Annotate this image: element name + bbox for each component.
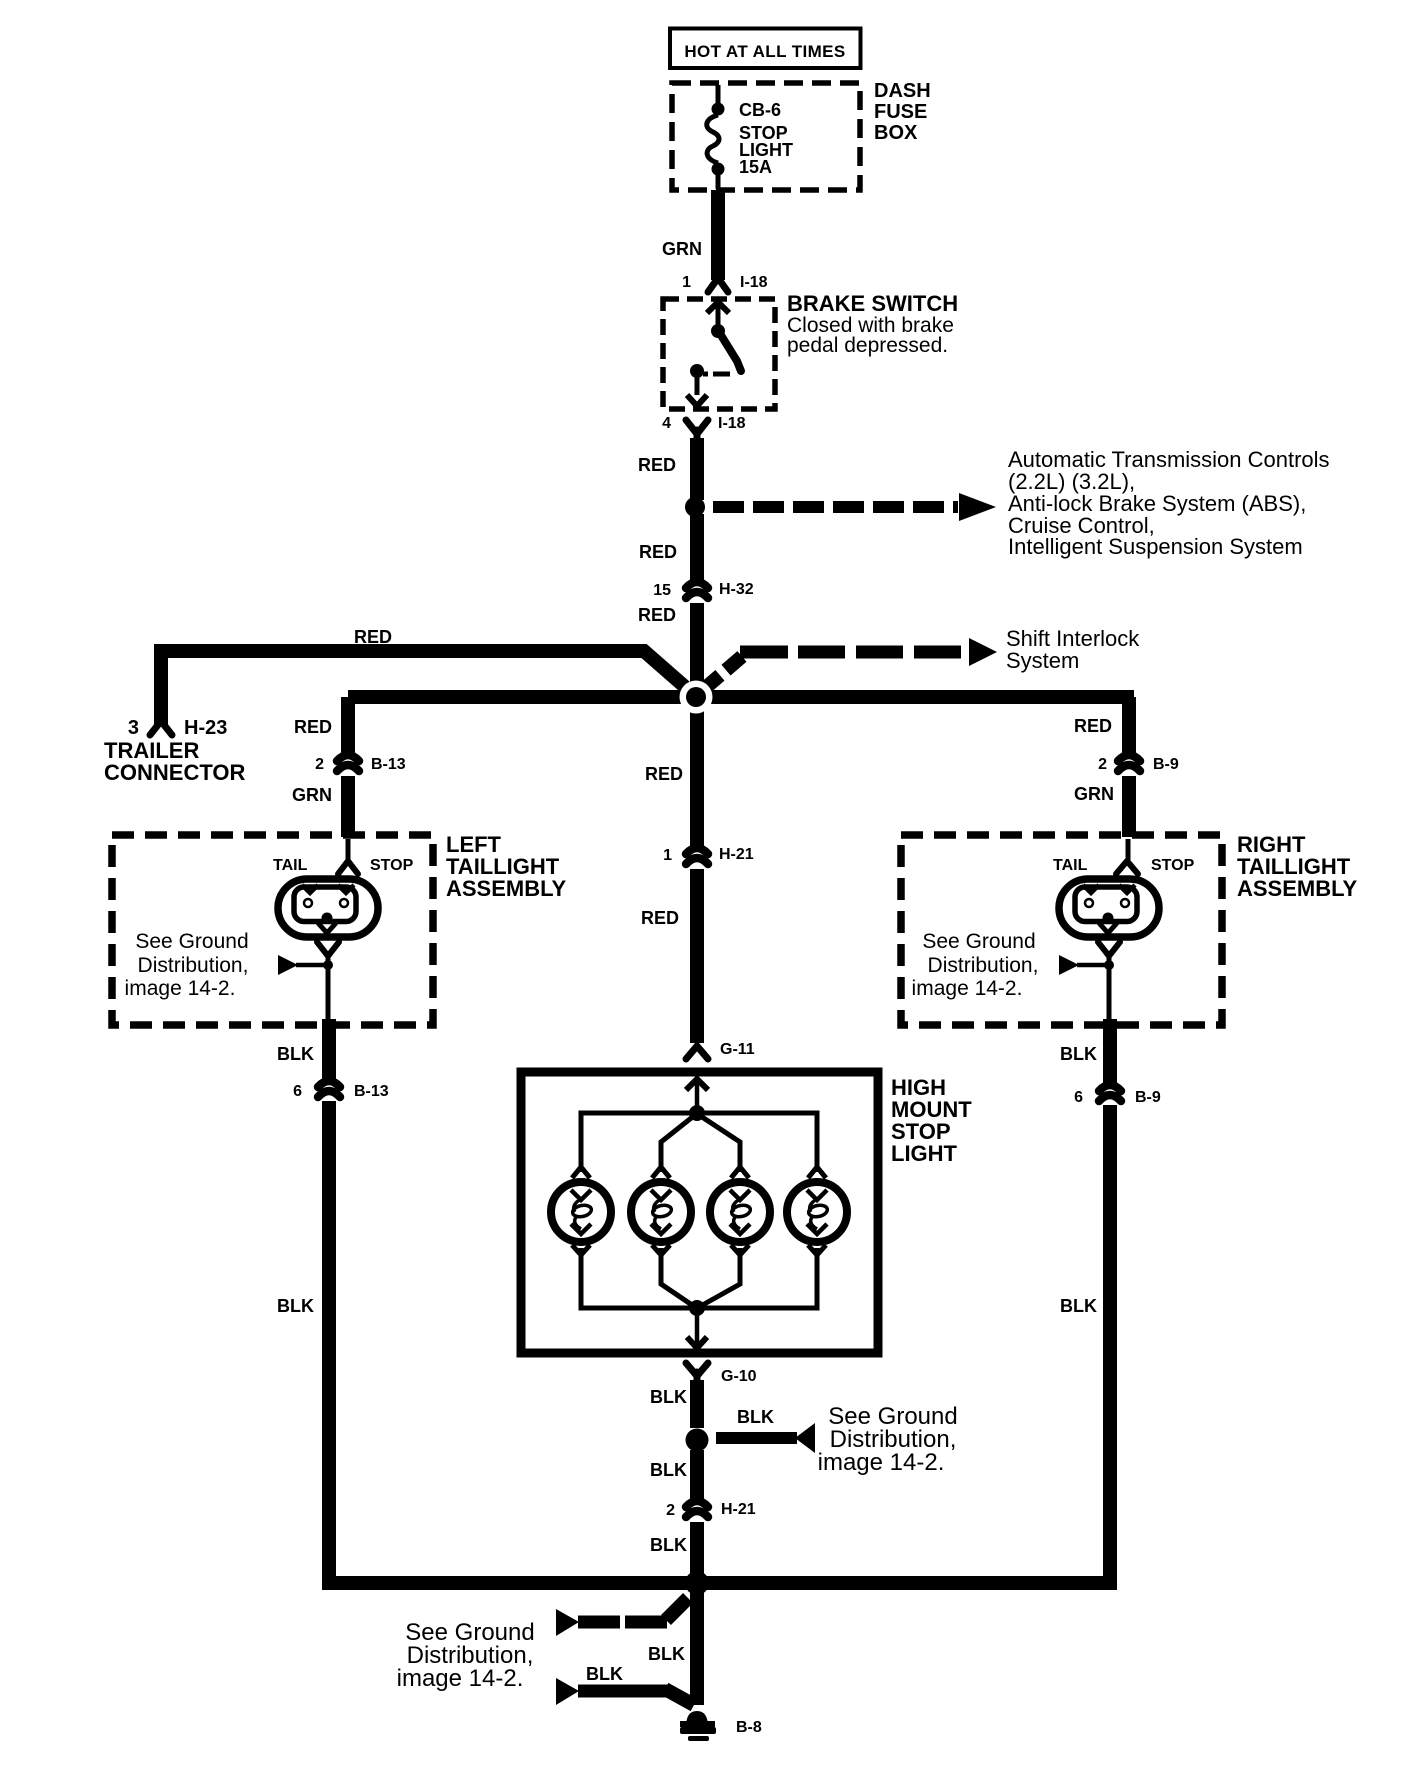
pin arrow out of high mount box — [687, 1308, 707, 1348]
svg-text:H-23: H-23 — [184, 717, 227, 739]
svg-text:1: 1 — [663, 847, 672, 864]
ground junction node — [686, 1429, 709, 1452]
left taillight assembly (dashed box) — [112, 832, 567, 1025]
svg-text:HOT AT ALL TIMES: HOT AT ALL TIMES — [684, 42, 845, 61]
svg-text:Distribution,: Distribution, — [928, 954, 1039, 977]
svg-text:image 14-2.: image 14-2. — [125, 977, 236, 1000]
ground distribution arrow left box — [278, 955, 333, 975]
connector I-18 pin 1 (female fork) — [682, 274, 768, 292]
svg-text:BLK: BLK — [737, 1407, 774, 1427]
connector B-13 pin 2 — [315, 755, 406, 773]
svg-text:System: System — [1006, 648, 1079, 673]
see ground distribution note bottom left — [397, 1619, 535, 1692]
svg-text:BLK: BLK — [650, 1460, 687, 1480]
wire BLK below left taillight — [277, 1019, 329, 1083]
wire RED H-21 to high mount stop light — [641, 869, 697, 1043]
bulb 2 — [631, 1182, 691, 1242]
bulb 3 — [710, 1182, 770, 1242]
connector I-18 pin 4 (female fork below box) — [662, 415, 746, 440]
svg-text:ASSEMBLY: ASSEMBLY — [446, 876, 567, 901]
svg-text:See Ground: See Ground — [922, 930, 1035, 953]
svg-text:Distribution,: Distribution, — [138, 954, 249, 977]
stop terminal fork right bulb — [1116, 839, 1138, 874]
svg-text:DASH: DASH — [874, 80, 931, 102]
wire RED to right taillight (corner down) — [1074, 697, 1129, 757]
wire BLK junction to H-21 — [650, 1450, 697, 1503]
svg-text:Intelligent Suspension System: Intelligent Suspension System — [1008, 534, 1303, 559]
svg-text:CONNECTOR: CONNECTOR — [104, 760, 245, 785]
stop terminal fork left bulb — [338, 839, 358, 874]
svg-text:3: 3 — [128, 717, 139, 739]
svg-text:G-11: G-11 — [720, 1041, 755, 1058]
dash fuse box (dashed outline) — [672, 80, 931, 190]
bulb terminal forks (top) — [572, 1167, 826, 1178]
ground terminal fork under right bulb — [1098, 942, 1120, 1022]
wire RED junction to H-32 — [639, 514, 697, 584]
svg-text:B-9: B-9 — [1153, 756, 1179, 773]
wire RED brake switch to junction — [638, 438, 697, 500]
main junction node (ring) — [680, 681, 713, 714]
svg-text:pedal depressed.: pedal depressed. — [787, 334, 948, 357]
power label box HOT AT ALL TIMES — [670, 29, 861, 69]
svg-text:1: 1 — [682, 274, 691, 291]
svg-text:I-18: I-18 — [740, 274, 768, 291]
svg-text:BLK: BLK — [277, 1296, 314, 1316]
svg-text:H-21: H-21 — [721, 1501, 756, 1518]
svg-text:RED: RED — [294, 717, 332, 737]
bulb 1 — [551, 1182, 611, 1242]
connector H-21 pin 1 — [663, 846, 754, 864]
svg-text:H-21: H-21 — [719, 846, 754, 863]
svg-text:B-13: B-13 — [371, 756, 406, 773]
svg-text:FUSE: FUSE — [874, 101, 927, 123]
junction node to ATC systems — [685, 497, 705, 517]
svg-text:I-18: I-18 — [718, 415, 746, 432]
svg-text:H-32: H-32 — [719, 581, 754, 598]
svg-text:RED: RED — [645, 764, 683, 784]
bottom collection rail — [581, 1248, 817, 1308]
svg-text:BLK: BLK — [277, 1044, 314, 1064]
branch arrow to ground distribution upper — [556, 1598, 688, 1636]
connector H-21 pin 2 — [666, 1501, 756, 1519]
svg-text:B-9: B-9 — [1135, 1089, 1161, 1106]
right taillight assembly (dashed box) — [901, 832, 1358, 1025]
svg-text:ASSEMBLY: ASSEMBLY — [1237, 876, 1358, 901]
wire RED to trailer connector (horizontal + corner) — [161, 627, 692, 726]
svg-text:6: 6 — [1074, 1089, 1083, 1106]
wire BLK left column to bottom rail — [277, 1101, 329, 1590]
svg-text:BLK: BLK — [650, 1387, 687, 1407]
left dual filament bulb — [278, 879, 378, 937]
svg-text:BLK: BLK — [586, 1664, 623, 1684]
ground terminal fork under left bulb — [317, 942, 339, 1022]
svg-text:GRN: GRN — [292, 785, 332, 805]
svg-text:LIGHT: LIGHT — [891, 1141, 958, 1166]
connector B-9 pin 6 — [1074, 1085, 1161, 1106]
top distribution rail — [581, 1113, 817, 1172]
svg-text:image 14-2.: image 14-2. — [912, 977, 1023, 1000]
svg-text:6: 6 — [293, 1083, 302, 1100]
pin arrow into high mount box — [686, 1079, 708, 1110]
svg-text:TAIL: TAIL — [1053, 857, 1088, 874]
svg-text:CB-6: CB-6 — [739, 100, 781, 120]
svg-text:2: 2 — [315, 756, 324, 773]
top feed node — [689, 1105, 705, 1121]
bulb 4 — [787, 1182, 847, 1242]
svg-text:image 14-2.: image 14-2. — [397, 1665, 524, 1692]
bottom ground rail — [329, 1104, 1110, 1583]
wire GRN from fuse box to brake switch — [662, 190, 718, 280]
svg-text:RED: RED — [638, 605, 676, 625]
wire GRN into right taillight — [1074, 776, 1129, 837]
svg-text:TAIL: TAIL — [273, 857, 308, 874]
connector H-23 pin 3 (female fork, trailer) — [128, 717, 227, 739]
svg-text:See Ground: See Ground — [135, 930, 248, 953]
branch arrow to ground distribution lower (BLK) — [556, 1664, 694, 1705]
svg-text:2: 2 — [666, 1502, 675, 1519]
svg-text:RED: RED — [354, 627, 392, 647]
wire RED H-32 to main junction — [638, 603, 697, 690]
bulb terminal forks (bottom) — [572, 1245, 826, 1255]
circuit breaker CB-6 STOP LIGHT 15A — [707, 85, 793, 189]
svg-text:BLK: BLK — [650, 1535, 687, 1555]
wire BLK below right taillight — [1060, 1019, 1110, 1087]
svg-text:STOP: STOP — [1151, 857, 1195, 874]
svg-text:GRN: GRN — [1074, 784, 1114, 804]
dashed wire arrow to Shift Interlock System — [704, 626, 1140, 689]
connector H-32 pin 15 — [653, 581, 754, 599]
brake switch (dashed box) — [663, 291, 958, 409]
svg-text:BOX: BOX — [874, 122, 918, 144]
svg-text:RED: RED — [639, 542, 677, 562]
main horizontal wire to both taillights — [348, 690, 1134, 704]
svg-text:RED: RED — [641, 908, 679, 928]
ground symbol B-8 — [680, 1711, 762, 1741]
bottom junction node — [685, 1571, 709, 1595]
see ground distribution note right box — [912, 930, 1039, 1000]
wire BLK branch to ground distribution (right) — [716, 1403, 958, 1476]
connector G-10 (female fork) — [686, 1363, 757, 1385]
connector B-9 pin 2 — [1098, 755, 1179, 773]
brake switch contacts and blade — [687, 302, 741, 406]
svg-text:4: 4 — [662, 415, 671, 432]
wire BLK H-21 to bottom junction — [650, 1522, 697, 1578]
svg-text:RED: RED — [638, 455, 676, 475]
right dual filament bulb — [1059, 879, 1159, 937]
svg-text:BRAKE SWITCH: BRAKE SWITCH — [787, 291, 958, 316]
ground distribution arrow right box — [1059, 955, 1114, 975]
svg-text:STOP: STOP — [370, 857, 414, 874]
svg-text:image 14-2.: image 14-2. — [818, 1449, 945, 1476]
svg-text:RED: RED — [1074, 716, 1112, 736]
wire BLK right column to bottom rail — [1060, 1105, 1110, 1590]
svg-text:BLK: BLK — [1060, 1296, 1097, 1316]
connector B-13 pin 6 — [293, 1081, 389, 1100]
bottom feed node — [689, 1300, 705, 1316]
svg-text:15A: 15A — [739, 157, 772, 177]
trailer connector label — [104, 738, 245, 785]
svg-text:2: 2 — [1098, 756, 1107, 773]
svg-text:15: 15 — [653, 582, 671, 599]
see ground distribution note left box — [125, 930, 249, 1000]
connector G-11 (female fork) — [686, 1041, 755, 1059]
svg-text:B-8: B-8 — [736, 1719, 762, 1736]
wire from main junction down (RED) — [690, 697, 704, 850]
wire RED to left taillight (corner down) — [294, 697, 348, 757]
svg-text:B-13: B-13 — [354, 1083, 389, 1100]
svg-text:G-10: G-10 — [721, 1368, 757, 1385]
dashed wire arrow to Automatic Transmission Controls — [713, 447, 1330, 559]
wire BLK G-10 to ground junction — [650, 1380, 697, 1428]
svg-text:BLK: BLK — [648, 1644, 685, 1664]
wire GRN into left taillight — [292, 776, 348, 837]
wire BLK junction to ground — [648, 1583, 697, 1705]
svg-text:GRN: GRN — [662, 239, 702, 259]
high mount stop light box — [521, 1072, 972, 1353]
svg-text:BLK: BLK — [1060, 1044, 1097, 1064]
